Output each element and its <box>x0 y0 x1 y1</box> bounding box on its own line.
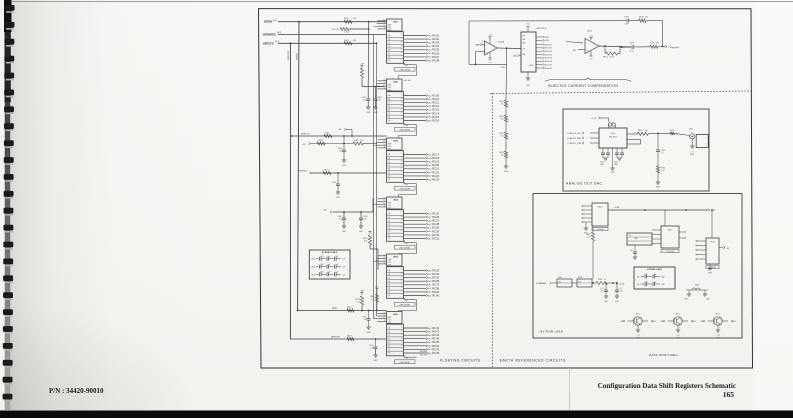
svg-text:RC12: RC12 <box>432 104 439 108</box>
svg-text:14: 14 <box>401 157 403 159</box>
capacitor C608 with ground <box>359 212 368 233</box>
svg-text:10: 10 <box>401 230 403 232</box>
svg-text:13: 13 <box>401 41 403 43</box>
svg-text:GND: GND <box>526 85 531 87</box>
svg-text:QB: QB <box>388 331 391 333</box>
svg-text:GND: GND <box>690 154 695 156</box>
svg-text:5.1k: 5.1k <box>360 140 364 142</box>
svg-text:RC39: RC39 <box>432 290 439 294</box>
svg-text:HOUT_DAT: HOUT_DAT <box>570 137 581 140</box>
svg-text:R650: R650 <box>638 130 643 132</box>
svg-text:14: 14 <box>384 312 386 314</box>
svg-text:2: 2 <box>705 144 706 146</box>
svg-text:RC41: RC41 <box>432 326 439 330</box>
capacitor C612 with ground lower <box>369 339 378 362</box>
label SERIN <box>264 19 278 24</box>
svg-text:14: 14 <box>401 273 403 275</box>
svg-text:SERIN: SERIN <box>264 20 272 24</box>
svg-text:100: 100 <box>353 18 357 20</box>
node GND right of Q601 <box>651 320 656 323</box>
svg-text:RC11: RC11 <box>432 101 439 105</box>
svg-text:GND: GND <box>373 112 378 114</box>
capacitor C610 1uF with ground <box>362 311 371 334</box>
svg-text:15k: 15k <box>501 118 504 120</box>
shift register U602 output section <box>387 92 427 124</box>
svg-text:QE: QE <box>388 168 391 170</box>
svg-text:R6: R6 <box>629 235 631 237</box>
svg-text:SERCFG: SERCFG <box>263 41 274 45</box>
svg-text:10k: 10k <box>645 16 648 18</box>
svg-text:15: 15 <box>401 327 403 329</box>
svg-text:CLK-643: CLK-643 <box>596 229 603 231</box>
svg-text:1.6uF: 1.6uF <box>629 51 634 53</box>
shift register U606 output section <box>387 324 427 356</box>
svg-text:RC35: RC35 <box>432 276 439 280</box>
resistor R630 10k top rail <box>639 16 663 46</box>
capacitor C653 <box>615 282 623 303</box>
svg-text:1.6uF: 1.6uF <box>624 23 630 25</box>
svg-text:RC27: RC27 <box>432 219 439 223</box>
svg-text:C6.3: C6.3 <box>637 284 641 286</box>
svg-text:GND: GND <box>573 50 578 52</box>
regulator U616 <box>582 203 609 235</box>
ground stub below U611 <box>526 72 531 87</box>
svg-text:10: 10 <box>401 112 403 114</box>
svg-text:1uF: 1uF <box>645 281 648 283</box>
svg-text:QD: QD <box>388 281 391 283</box>
svg-text:+5F: +5F <box>360 64 364 66</box>
svg-text:11: 11 <box>384 320 386 322</box>
svg-text:+5F: +5F <box>323 209 327 211</box>
svg-text:QA: QA <box>388 269 391 272</box>
capacitor C652 <box>600 282 609 303</box>
svg-text:QB: QB <box>388 274 391 276</box>
resistor R661 box style <box>557 277 577 287</box>
capacitor C630 1.6uF top rail <box>624 16 639 25</box>
IC U619 <box>696 209 730 275</box>
label 74HC595 under U604 <box>395 245 416 249</box>
capacitor C607 with ground <box>338 212 347 233</box>
svg-text:DB7: DB7 <box>522 36 525 38</box>
svg-text:J601: J601 <box>689 129 693 131</box>
dashed section divider horizontal (injected current compensation) <box>490 91 751 94</box>
svg-text:QG: QG <box>388 176 391 178</box>
svg-text:RC43: RC43 <box>432 333 439 337</box>
svg-text:A/D-H07: A/D-H07 <box>545 63 552 66</box>
svg-text:DB6: DB6 <box>522 39 525 41</box>
svg-text:VCC: VCC <box>526 24 531 26</box>
svg-text:[C-6]: [C-6] <box>567 133 571 135</box>
node CHANNEL connector <box>536 282 557 285</box>
svg-text:1uF: 1uF <box>600 290 603 292</box>
svg-text:GND: GND <box>600 164 605 166</box>
svg-text:QA: QA <box>388 327 391 330</box>
svg-text:9: 9 <box>401 291 402 293</box>
svg-text:10k: 10k <box>578 281 581 283</box>
svg-text:RC03: RC03 <box>432 41 439 45</box>
capacitor C650 <box>630 245 637 259</box>
svg-text:74HC595B1: 74HC595B1 <box>399 188 411 190</box>
svg-text:U617: U617 <box>668 229 674 231</box>
svg-text:RC44: RC44 <box>432 337 439 341</box>
node GND left of Q601 <box>621 320 626 323</box>
svg-text:DATA SHIFT REG: DATA SHIFT REG <box>649 353 678 357</box>
box REF resistor on U615 <box>627 140 641 145</box>
wire +4.3V rail <box>608 207 708 211</box>
svg-text:11: 11 <box>401 167 403 169</box>
svg-text:CLK-6430: CLK-6430 <box>666 251 674 253</box>
svg-text:9: 9 <box>401 116 402 118</box>
svg-text:RC34: RC34 <box>432 272 439 276</box>
svg-text:13: 13 <box>384 315 386 317</box>
svg-text:R613: R613 <box>354 140 359 142</box>
svg-text:MDOWN: MDOWN <box>420 354 428 356</box>
svg-text:RC32: RC32 <box>432 236 439 240</box>
label SERNREG <box>263 31 282 37</box>
resistor R618 5.1k lower <box>355 291 364 312</box>
svg-text:GND: GND <box>311 274 316 276</box>
svg-text:RC37: RC37 <box>432 283 439 287</box>
svg-text:15k: 15k <box>501 135 504 137</box>
svg-text:QF: QF <box>388 346 390 348</box>
wire SERNREG net <box>278 34 387 36</box>
svg-text:GND: GND <box>656 187 661 189</box>
svg-text:RC19: RC19 <box>432 160 439 164</box>
svg-text:RC23: RC23 <box>432 174 439 178</box>
wire U611 to op-amp U612 <box>566 42 583 43</box>
resistor R662 box style <box>577 277 596 287</box>
label 74HC595 under U605 <box>395 302 416 306</box>
label SERCFG <box>263 40 280 45</box>
svg-text:11: 11 <box>401 283 403 285</box>
svg-text:GND: GND <box>634 238 639 240</box>
svg-text:RC07: RC07 <box>432 55 439 59</box>
resistor R651 1k <box>658 130 690 136</box>
svg-text:3: 3 <box>482 41 483 43</box>
svg-text:-: - <box>586 41 587 44</box>
svg-text:SERCFG: SERCFG <box>331 336 340 338</box>
svg-text:1: 1 <box>705 138 706 140</box>
svg-text:QE: QE <box>388 284 391 286</box>
svg-text:15: 15 <box>401 212 403 214</box>
svg-text:RC46: RC46 <box>432 344 439 348</box>
ground below C642 <box>656 182 661 189</box>
svg-text:QC: QC <box>388 161 391 163</box>
svg-text:GND: GND <box>604 301 609 303</box>
svg-text:GND: GND <box>359 231 364 233</box>
svg-text:1.1k: 1.1k <box>661 170 664 172</box>
svg-text:SERIN: SERIN <box>297 53 299 60</box>
svg-text:15: 15 <box>401 269 403 271</box>
wire U602 output labels <box>426 93 440 122</box>
svg-text:RC45: RC45 <box>432 340 439 344</box>
shift register U601 74HC595 control section <box>378 19 403 31</box>
svg-text:QB: QB <box>388 39 391 41</box>
resistor R602 100 on SERCFG <box>344 40 357 45</box>
svg-text:1uF: 1uF <box>645 274 648 276</box>
svg-text:QG: QG <box>388 235 391 237</box>
svg-text:1uF: 1uF <box>328 256 331 258</box>
transistor Q603 <box>708 310 729 330</box>
connector J601 analog out <box>689 129 708 157</box>
op-amp U610 <box>485 34 505 64</box>
svg-text:RC38: RC38 <box>432 286 439 290</box>
svg-text:QH: QH <box>388 295 391 297</box>
svg-text:GND: GND <box>661 284 666 286</box>
svg-text:R662: R662 <box>578 277 582 279</box>
svg-text:A/D-H04: A/D-H04 <box>545 53 552 56</box>
svg-text:HOUT_STB: HOUT_STB <box>570 143 581 145</box>
wire QH' serial chain from U604 <box>399 241 417 254</box>
label 74HC595 under U602 <box>395 127 416 131</box>
svg-text:R640: R640 <box>501 67 505 69</box>
svg-text:74HC595B1: 74HC595B1 <box>399 129 411 131</box>
svg-text:QH': QH' <box>405 300 409 302</box>
analog out dac box <box>563 109 709 191</box>
shift register U604 output section <box>387 210 427 242</box>
svg-text:QD: QD <box>388 338 391 340</box>
wire control bus stubs U601 <box>374 24 378 27</box>
shift register U606 74HC595 control section <box>378 312 403 324</box>
svg-text:74HC595B1: 74HC595B1 <box>399 304 411 306</box>
svg-text:(CHANNEL: (CHANNEL <box>536 282 547 285</box>
svg-text:AGND: AGND <box>529 64 534 67</box>
shift register U603 74HC595 control section <box>378 138 403 150</box>
svg-text:GND: GND <box>366 112 371 114</box>
svg-text:R631: R631 <box>603 56 608 58</box>
svg-text:C6: C6 <box>630 250 632 252</box>
svg-text:QG: QG <box>388 292 391 294</box>
svg-text:C6.3: C6.3 <box>637 277 641 279</box>
svg-text:RC18: RC18 <box>432 156 439 160</box>
svg-text:13: 13 <box>384 200 386 202</box>
svg-text:GND: GND <box>342 231 347 233</box>
svg-text:[A-1]: [A-1] <box>273 19 278 22</box>
svg-text:RC02: RC02 <box>432 37 439 41</box>
svg-text:R601: R601 <box>344 18 350 20</box>
wire QH' serial chain from U603 <box>399 182 417 197</box>
svg-text:BYPASS CAPS: BYPASS CAPS <box>647 268 662 271</box>
svg-text:[A-1]: [A-1] <box>275 40 280 43</box>
svg-text:GND: GND <box>611 172 616 174</box>
svg-text:C620: C620 <box>320 256 324 258</box>
svg-text:RC47: RC47 <box>432 347 439 351</box>
svg-text:RC01: RC01 <box>432 33 439 37</box>
label DATA SHIFT REG <box>649 353 678 357</box>
svg-text:RC14: RC14 <box>432 111 439 115</box>
svg-text:RC22: RC22 <box>432 170 439 174</box>
wire U611 right pin rows <box>536 36 552 70</box>
svg-text:A/D-H08: A/D-H08 <box>545 67 552 70</box>
svg-text:9: 9 <box>401 234 402 236</box>
wire vertical bus SERIN2 <box>298 22 299 311</box>
svg-text:10k: 10k <box>656 42 659 44</box>
svg-text:ANALOG OUT DAC: ANALOG OUT DAC <box>566 182 603 186</box>
svg-text:SERCLK: SERCLK <box>301 134 310 136</box>
wire strobe row to U606 <box>297 307 387 312</box>
resistor R632 10k on output wire <box>650 42 665 48</box>
svg-text:RC40: RC40 <box>432 293 439 297</box>
shift register U604 74HC595 control section <box>378 197 403 209</box>
svg-text:11: 11 <box>401 108 403 110</box>
svg-text:13: 13 <box>401 276 403 278</box>
svg-text:12: 12 <box>384 144 386 146</box>
svg-text:QA: QA <box>388 212 391 215</box>
svg-text:.1uF: .1uF <box>653 281 656 283</box>
svg-text:12: 12 <box>401 280 403 282</box>
resistor R660 below U616 <box>586 226 594 279</box>
svg-text:13: 13 <box>384 82 386 84</box>
wire QH' serial chain from U601 <box>399 63 417 79</box>
svg-text:CT1: CT1 <box>690 151 693 153</box>
svg-text:QE: QE <box>388 49 391 51</box>
svg-text:12: 12 <box>384 260 386 262</box>
svg-text:13: 13 <box>384 257 386 259</box>
svg-text:11: 11 <box>384 206 386 208</box>
wire vertical bus SERCFG <box>290 43 292 339</box>
svg-text:2: 2 <box>484 49 485 51</box>
inductor L601 bead <box>608 122 615 128</box>
svg-text:QC: QC <box>388 277 391 279</box>
svg-text:RC25: RC25 <box>432 211 439 215</box>
svg-text:R671: R671 <box>675 314 679 316</box>
svg-text:11: 11 <box>384 28 386 30</box>
svg-text:DAC8043: DAC8043 <box>609 135 617 138</box>
wire control bus stubs U606 <box>374 316 378 319</box>
capacitor C601 0.1uF with ground <box>361 80 370 114</box>
svg-text:11: 11 <box>401 48 403 50</box>
VCC pull-up: resistor R603 2.15k <box>331 27 368 33</box>
svg-text:R672: R672 <box>715 314 719 316</box>
label ANALOG OUT DAC <box>566 182 603 186</box>
svg-text:QH: QH <box>388 120 391 122</box>
svg-text:A/D-H06: A/D-H06 <box>545 60 552 63</box>
svg-text:13: 13 <box>384 141 386 143</box>
label vertical SERIN <box>297 53 299 60</box>
svg-text:GND: GND <box>367 332 372 334</box>
svg-text:1uF: 1uF <box>328 272 331 274</box>
svg-text:5.1k: 5.1k <box>364 241 368 243</box>
svg-text:RC04: RC04 <box>432 44 439 48</box>
svg-text:INJECTED CURRENT COMPENSATION: INJECTED CURRENT COMPENSATION <box>548 84 618 88</box>
svg-text:8: 8 <box>401 237 402 239</box>
svg-text:BYPASS CAPS: BYPASS CAPS <box>322 251 338 254</box>
svg-text:+4.3V: +4.3V <box>614 207 620 209</box>
svg-text:QB: QB <box>388 99 391 101</box>
svg-text:8: 8 <box>401 178 402 180</box>
svg-text:QH: QH <box>388 238 391 240</box>
svg-text:RC13: RC13 <box>432 108 439 112</box>
wire U604 output labels <box>426 211 440 240</box>
svg-text:RC36: RC36 <box>432 279 439 283</box>
svg-text:14: 14 <box>384 138 386 140</box>
svg-text:11: 11 <box>384 263 386 265</box>
svg-text:1uF: 1uF <box>328 264 331 266</box>
svg-text:15: 15 <box>401 94 403 96</box>
svg-text:QF: QF <box>388 288 390 290</box>
svg-text:QE: QE <box>388 227 391 229</box>
svg-text:AD7528LN: AD7528LN <box>537 27 547 30</box>
svg-text:RC30: RC30 <box>432 229 439 233</box>
svg-text:15: 15 <box>401 153 403 155</box>
svg-text:GND: GND <box>545 37 550 39</box>
svg-text:[A-1]: [A-1] <box>277 31 282 34</box>
svg-text:1.33(p-p)uA: 1.33(p-p)uA <box>668 46 679 49</box>
svg-text:U612: U612 <box>587 30 593 32</box>
svg-text:+4.3V: +4.3V <box>619 283 625 285</box>
svg-text:RC17: RC17 <box>432 152 439 156</box>
svg-text:15k: 15k <box>501 154 504 156</box>
label HC-HC <box>404 80 411 82</box>
svg-text:+5F: +5F <box>342 267 346 269</box>
wire +5F distribution row y212 <box>323 198 373 213</box>
svg-text:13: 13 <box>401 160 403 162</box>
svg-text:GND: GND <box>513 56 518 58</box>
svg-text:QH: QH <box>388 60 391 62</box>
svg-text:GND: GND <box>504 171 509 173</box>
resistor R601 100 on SERIN <box>344 18 357 23</box>
svg-text:RC20: RC20 <box>432 163 439 167</box>
svg-text:QF: QF <box>388 113 390 115</box>
wire QH' serial chain from U606 <box>404 356 417 360</box>
svg-text:VCC: VCC <box>331 29 336 31</box>
svg-text:QH': QH' <box>405 65 409 67</box>
svg-text:QH': QH' <box>405 243 409 245</box>
DAC U611 <box>521 27 547 72</box>
svg-text:+5F: +5F <box>360 291 364 293</box>
svg-text:.1uF: .1uF <box>335 256 338 258</box>
svg-text:C622: C622 <box>320 272 324 274</box>
svg-text:R632: R632 <box>650 42 655 44</box>
svg-text:QC: QC <box>388 42 391 44</box>
svg-text:.1uF: .1uF <box>377 99 382 101</box>
svg-text:QG: QG <box>388 57 391 59</box>
svg-text:RC05: RC05 <box>432 48 439 52</box>
wire SERVLD row y173 <box>299 170 387 175</box>
svg-text:14: 14 <box>384 19 386 21</box>
svg-text:RC29: RC29 <box>432 226 439 230</box>
svg-text:14: 14 <box>401 216 403 218</box>
svg-text:RC16: RC16 <box>432 118 439 122</box>
svg-text:.1uF: .1uF <box>335 264 338 266</box>
resistor R620 5.1k with VCC <box>370 287 379 312</box>
svg-text:9: 9 <box>401 56 402 58</box>
svg-text:R614: R614 <box>324 170 329 172</box>
node GND left of Q602 <box>661 320 666 323</box>
ground below Q601 <box>636 330 641 339</box>
svg-text:U610A: U610A <box>498 41 505 44</box>
svg-text:A/D-H03: A/D-H03 <box>545 50 552 53</box>
label FLOATING CIRCUITS <box>440 358 481 362</box>
label INJECTED CURRENT COMPENSATION with brace <box>545 78 631 88</box>
svg-text:12: 12 <box>401 223 403 225</box>
svg-text:+5_A: +5_A <box>591 117 597 120</box>
node SERIN junction <box>298 21 370 23</box>
svg-text:L602: L602 <box>695 285 699 287</box>
svg-text:QD: QD <box>388 106 391 108</box>
spiral binding <box>0 0 22 418</box>
svg-text:+15: +15 <box>488 34 492 36</box>
wire SERCFG net <box>278 42 377 44</box>
svg-text:2.2: 2.2 <box>661 152 664 154</box>
resistor R616 5.1k near bypass box <box>363 232 378 271</box>
wire U606 output labels <box>426 326 440 355</box>
svg-text:9: 9 <box>401 348 402 350</box>
svg-text:.1uF: .1uF <box>653 274 656 276</box>
label 74HC595 under U606 <box>395 360 416 364</box>
wire +5F branch row y143.5 <box>302 140 377 146</box>
svg-text:SERVLD: SERVLD <box>299 171 308 173</box>
